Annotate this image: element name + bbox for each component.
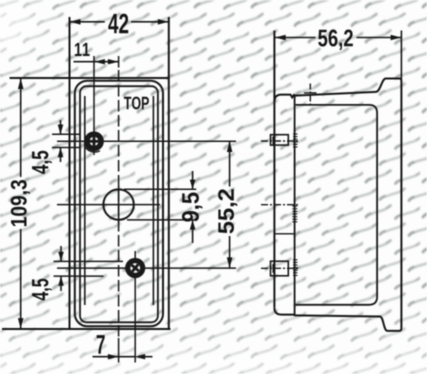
dimension text 109,3 (11, 180, 30, 226)
dimension text 9,5 (182, 193, 202, 222)
centerline vertical (dashed) (118, 70, 120, 338)
56.2 right extension line (400, 31, 402, 80)
side view bottom screw boss (271, 261, 289, 276)
dimension 56,2 (275, 37, 401, 39)
dimension text 42 (108, 14, 128, 34)
dimension text 55,2 (218, 189, 237, 233)
top boss centerline (261, 140, 298, 142)
side view lens bottom outline (274, 308, 294, 315)
top screw horizontal centerline (57, 140, 236, 142)
bottom screw (125, 258, 145, 278)
top screw (84, 131, 104, 152)
side view center hole centerline (261, 204, 298, 206)
side view housing outer profile (295, 79, 402, 331)
hole tangent line top (9.5 extension) (124, 188, 196, 190)
dimension text 4,5 (lower) (32, 279, 52, 301)
top boss threads (293, 134, 298, 147)
front view housing top edge / 109.3 extension line (10, 77, 169, 79)
4.5 top tick lower (52, 147, 81, 149)
mounting hole circle (103, 189, 133, 219)
dimension 4,5 bottom (60, 246, 62, 291)
bottom boss cross tick (272, 264, 274, 273)
4.5 bottom tick lower (54, 275, 104, 277)
side view lens inner mark (275, 233, 295, 235)
dimension 4,5 top (60, 120, 62, 162)
lens front edge / 56.2 extension line (273, 31, 275, 308)
TOP marking text (124, 97, 149, 110)
dimension 11 (74, 61, 119, 63)
side view top axis tick (304, 92, 317, 94)
dimension text 56,2 (318, 30, 353, 50)
lens outer rounded rect R1 (75, 81, 163, 327)
dimension text 4,5 (upper) (32, 151, 52, 174)
hole tangent line bottom (9.5 extension) (127, 219, 196, 221)
side view top screw boss (271, 135, 289, 145)
bottom screw horizontal centerline (57, 267, 236, 269)
side view housing inner wall (296, 105, 378, 305)
front view housing right edge / 42 extension line (168, 17, 170, 329)
side view lens back edge (294, 95, 296, 316)
bottom boss threads (293, 260, 298, 276)
4.5 bottom tick upper (54, 260, 124, 262)
side view top axis dash-dot (309, 84, 311, 106)
front view housing left edge / 42 extension line (69, 17, 71, 329)
centerline tick at 7 dim (118, 338, 120, 363)
hole vertical crosshair solid segment (118, 186, 120, 223)
bottom boss centerline (261, 267, 298, 269)
top boss cross tick (272, 137, 274, 146)
lens middle rounded rect R2 (80, 86, 158, 322)
top screw axis vertical (93, 56, 95, 155)
dimension 7 (93, 356, 153, 358)
dimension 9,5 (192, 171, 194, 243)
4.5 top tick upper (52, 133, 80, 135)
side view center hole threads (292, 206, 297, 222)
front view housing bottom edge / 109.3 extension line (2, 328, 171, 330)
centerline tick at 11 dim (118, 56, 120, 68)
dimension 109,3 (20, 78, 22, 328)
reflector edge right (152, 96, 154, 305)
dimension 55,2 (229, 141, 231, 268)
bottom screw axis vertical (134, 251, 136, 363)
reflector edge left (84, 96, 86, 305)
dimension 42 (70, 21, 169, 23)
side view lens top outline with notch (274, 95, 294, 102)
dimension text 11 (75, 43, 90, 56)
dimension text 7 (97, 335, 105, 354)
hole horizontal centerline (57, 204, 160, 206)
